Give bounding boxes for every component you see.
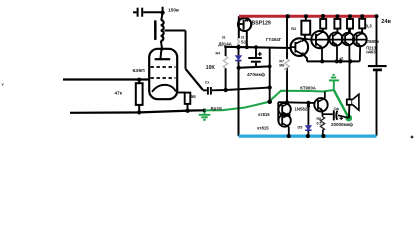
transistor Q5 <box>342 33 354 45</box>
tube cathode curve <box>152 85 176 92</box>
wire base feed (y=102) <box>278 101 314 104</box>
transistor Q9 КТ900А <box>314 98 327 111</box>
svg-text:31: 31 <box>222 35 226 39</box>
svg-text:ГТ404Г: ГТ404Г <box>266 37 282 42</box>
switch S1 (faint) <box>238 39 240 45</box>
wire base bus (y=40.3) <box>305 38 367 41</box>
capacitor 470мкф leads <box>255 47 257 67</box>
wire W2 (y=69.6) <box>239 66 270 67</box>
svg-text:470мкф: 470мкф <box>247 71 265 78</box>
resistor 10K faint zigzag <box>223 56 227 68</box>
wire B lower input (y=113.5) <box>70 110 205 113</box>
speaker bottom lead <box>348 105 351 118</box>
svg-text:Кр15: Кр15 <box>211 106 223 112</box>
speaker <box>347 99 352 104</box>
node 150v junction <box>161 11 165 15</box>
wire coil tap to right vertical <box>165 30 186 32</box>
node wireB/47k junction <box>137 110 141 114</box>
wire green signal run <box>205 90 334 110</box>
svg-text:6.5: 6.5 <box>317 121 322 125</box>
capacitor C_ant (antenna coupling) <box>133 8 163 17</box>
node Q7 emitter / Q8 collector <box>287 113 291 117</box>
wire diagonal to C2 <box>186 69 203 90</box>
nodes on E1 <box>320 59 324 63</box>
wire zener branch down to cyan bus <box>238 68 240 136</box>
wire W1 (y=47.2) <box>224 47 291 48</box>
red rail +24v <box>239 15 378 18</box>
node wireA/47k junction <box>137 78 141 82</box>
node black junction on green (x=269.7) <box>267 100 272 105</box>
node 10K/H3 junction <box>224 88 228 92</box>
wires emitters down <box>321 48 323 62</box>
resistor R7 faint zigzag <box>285 59 289 70</box>
cyan ground bus <box>239 135 377 138</box>
svg-text:6Э5П: 6Э5П <box>133 68 146 74</box>
node wireB end junction <box>203 109 207 113</box>
tube grid 2 (dashed) <box>151 77 176 79</box>
node W1/cap junction <box>254 45 258 49</box>
transistor Q1 BSP129 <box>238 18 251 31</box>
wire vertical x=185.5 <box>185 31 187 69</box>
node W1/source junction <box>245 45 249 49</box>
svg-text:24в: 24в <box>381 19 391 25</box>
svg-text:П605в: П605в <box>367 39 380 44</box>
ground (green, at 336) <box>329 75 339 90</box>
nodes on red rail <box>286 14 290 18</box>
svg-text:D5: D5 <box>298 126 303 130</box>
wire green diagonal to speaker node <box>334 90 349 118</box>
resistor R5 <box>349 16 351 34</box>
svg-text:кт815: кт815 <box>257 125 269 130</box>
transistor Q8 кт815 <box>278 114 290 126</box>
resistor R2 leads <box>304 16 307 39</box>
wire cathode to resistor 56 <box>177 92 185 94</box>
svg-text:п403: п403 <box>366 50 376 55</box>
svg-text:м1: м1 <box>340 56 344 60</box>
transistor Q3 <box>311 31 328 48</box>
tube anode bar <box>155 58 171 60</box>
wire base branch x=278.2 <box>277 102 279 120</box>
battery 24V top lead <box>376 16 378 65</box>
svg-text:кт815: кт815 <box>258 112 270 117</box>
transistor Q2 ГТ404Г <box>291 38 309 56</box>
node W2 corner <box>268 65 272 69</box>
svg-text:10K: 10K <box>206 65 216 71</box>
svg-text:КТ900А: КТ900А <box>300 85 316 90</box>
inductor L1 core <box>154 20 157 40</box>
tube grid 1 (dashed) <box>151 66 176 68</box>
speaker top lead <box>349 61 351 99</box>
resistor 47к leads <box>138 80 140 113</box>
inductor L1 winding <box>161 20 164 41</box>
resistor R8 zigzag <box>321 114 323 116</box>
svg-text:56: 56 <box>191 94 196 99</box>
stray mark bottom right <box>411 136 414 139</box>
wire Q2 emitter to bus E1 <box>304 55 307 61</box>
plus sign <box>258 52 262 56</box>
resistor 56 body <box>185 93 191 104</box>
nodes on cyan bus <box>287 134 291 138</box>
wire D5 branch x=309.7 <box>307 103 309 136</box>
wire Q8 emitter to cyan bus <box>288 127 290 136</box>
battery bottom lead <box>376 70 378 136</box>
diode D5 1N5820 <box>305 126 311 131</box>
transistor Q4 <box>329 32 342 45</box>
wire coil bottom to tube anode cap <box>161 41 162 51</box>
wire Q9 emitter to cap node <box>321 110 323 114</box>
svg-text:Д814А: Д814А <box>218 41 232 46</box>
wire long vertical x=286.3 from rail <box>286 16 288 102</box>
capacitor 20000мкф <box>322 113 332 115</box>
node W2/zener junction <box>237 66 241 70</box>
node wireB/56 junction <box>185 109 189 113</box>
svg-text:R4: R4 <box>216 52 221 56</box>
wire H3 from C2 to x=269.7 <box>212 88 270 91</box>
tube anode lead <box>160 49 161 59</box>
svg-text:R8: R8 <box>317 117 322 121</box>
capacitor C2 plates <box>208 87 211 95</box>
wire base bus L-link <box>302 39 305 42</box>
resistor 47к body <box>136 83 143 105</box>
svg-text:R2: R2 <box>291 26 297 31</box>
transistor Q7 кт815 <box>278 103 290 115</box>
node W1/zener junction <box>236 45 240 49</box>
capacitor 470мкф plates <box>248 57 261 59</box>
battery plates <box>368 65 387 67</box>
svg-text:150в: 150в <box>168 8 179 13</box>
svg-text:20000мкф: 20000мкф <box>331 121 353 127</box>
resistor R2 body <box>301 21 310 35</box>
resistor 56 leads <box>187 104 189 111</box>
wire emitter bus E1 (y=61.4) <box>307 60 360 62</box>
svg-text:BSP129: BSP129 <box>252 21 271 27</box>
ground (green, at 205,114) <box>199 110 211 119</box>
zener Д814А <box>238 47 240 68</box>
wire Q9 collector to green <box>324 92 326 99</box>
wire 10K branch leads <box>225 47 227 90</box>
svg-text:47к: 47к <box>115 91 123 96</box>
node H3 end junction <box>268 85 272 89</box>
tube V1 envelope 6Э5П <box>149 49 177 99</box>
svg-text:0,3: 0,3 <box>366 23 373 28</box>
transistor Q6 <box>353 33 367 47</box>
resistor R6 0,3 <box>361 16 363 34</box>
wire gate vertical from red rail through S1 <box>238 16 240 47</box>
resistor R4b <box>336 16 338 33</box>
svg-text:Сх: Сх <box>205 80 210 84</box>
wire coil top lead <box>161 7 162 20</box>
node green junction (speaker/cap) <box>345 115 352 122</box>
wire A grid input (y=79.5) <box>63 78 150 80</box>
svg-text:Сф: Сф <box>334 107 339 111</box>
resistor R3 <box>322 16 324 33</box>
svg-text:М6: М6 <box>279 63 284 67</box>
wire vertical x=269.7 <box>269 47 271 102</box>
